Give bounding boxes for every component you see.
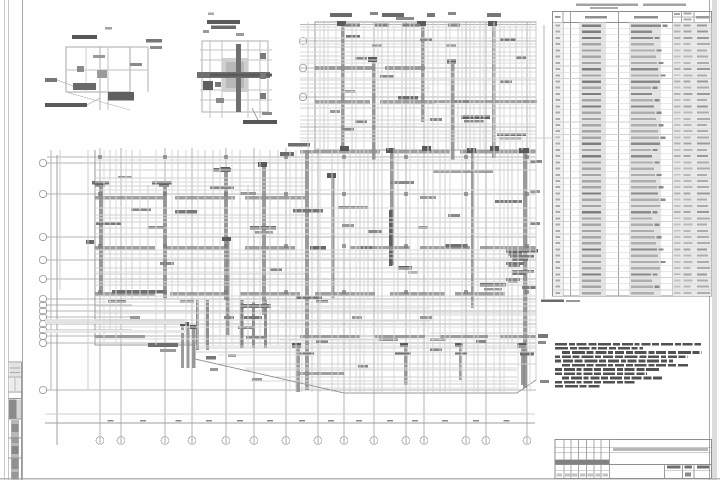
table outer border <box>553 12 712 297</box>
detail 2 bottom label <box>243 120 277 124</box>
detail 2 cross bars <box>236 44 241 112</box>
title block bottom-left row marks <box>557 474 563 477</box>
plan: building outline main body <box>95 150 536 393</box>
left margin stamp lower band <box>11 420 19 480</box>
plan: light grid verticals <box>99 148 101 436</box>
plan: bottom dimension tick labels <box>108 420 114 422</box>
plan: bottom dimension line <box>45 422 535 424</box>
left margin stamp boxes <box>9 361 22 363</box>
detail 2 hatch block <box>222 58 248 92</box>
plan: upper labels row dashes <box>345 24 360 27</box>
plan: wall strips vertical <box>99 185 103 293</box>
detail 1 side labels <box>45 78 57 82</box>
left margin stamp dark cell <box>9 400 16 419</box>
plan: light grid horizontals main <box>47 156 536 158</box>
title block left columns <box>563 439 565 478</box>
frame left border <box>22 0 24 480</box>
table data rows <box>556 25 561 27</box>
plan: scattered labels <box>330 13 352 17</box>
detail 1 dark blobs <box>73 83 96 90</box>
plan: bottom grid bubbles <box>96 437 104 445</box>
plan: upper-left grid bubbles <box>299 37 306 44</box>
title block horizontal lines <box>555 446 712 448</box>
plan: bottom outline diagonal <box>195 359 344 393</box>
sheet right edge shadow <box>712 0 717 480</box>
detail 2 outline <box>202 41 268 112</box>
plan: lower-middle wall cluster <box>196 300 199 350</box>
table title <box>576 3 638 6</box>
plan: small column squares <box>98 155 102 159</box>
detail 1 leaders <box>57 80 73 86</box>
detail 2 side squares <box>260 53 266 59</box>
frame bottom border <box>0 478 720 480</box>
plan: fine mesh batch2 horizontals <box>95 159 536 161</box>
plan: building outline upper section <box>315 22 536 150</box>
plan: right middle dark knot <box>506 249 538 253</box>
title block doc number row text <box>613 448 708 451</box>
plan: left light band y320 <box>45 319 185 324</box>
table column lines <box>562 12 564 297</box>
plan: vertical dimension line left <box>56 155 58 445</box>
plan: wall end caps <box>340 146 349 151</box>
table column grey bands <box>579 23 606 297</box>
plan: light grid horizontals upper <box>300 24 536 26</box>
plan: dark beam x390 <box>389 210 393 266</box>
frame right border <box>709 0 711 480</box>
title block header dark band <box>556 460 610 464</box>
plan: left grid bubbles <box>39 159 46 166</box>
plan: wall strips horizontal <box>315 66 375 70</box>
detail 1 outline <box>66 47 130 92</box>
table header row <box>553 22 712 24</box>
detail 1 label top <box>72 35 97 39</box>
notes paragraph <box>555 343 567 346</box>
title block outline <box>555 439 712 478</box>
detail 2 small marks <box>203 81 213 90</box>
note line under table <box>541 300 564 303</box>
plan: fine mesh batch2 verticals <box>103 150 105 345</box>
plan: extra tangle lines <box>59 150 61 290</box>
sheet left edge lines <box>4 0 6 480</box>
plan: right dimension line <box>543 25 545 300</box>
detail 2 title <box>207 20 240 24</box>
title block stadia list cells <box>664 464 666 478</box>
